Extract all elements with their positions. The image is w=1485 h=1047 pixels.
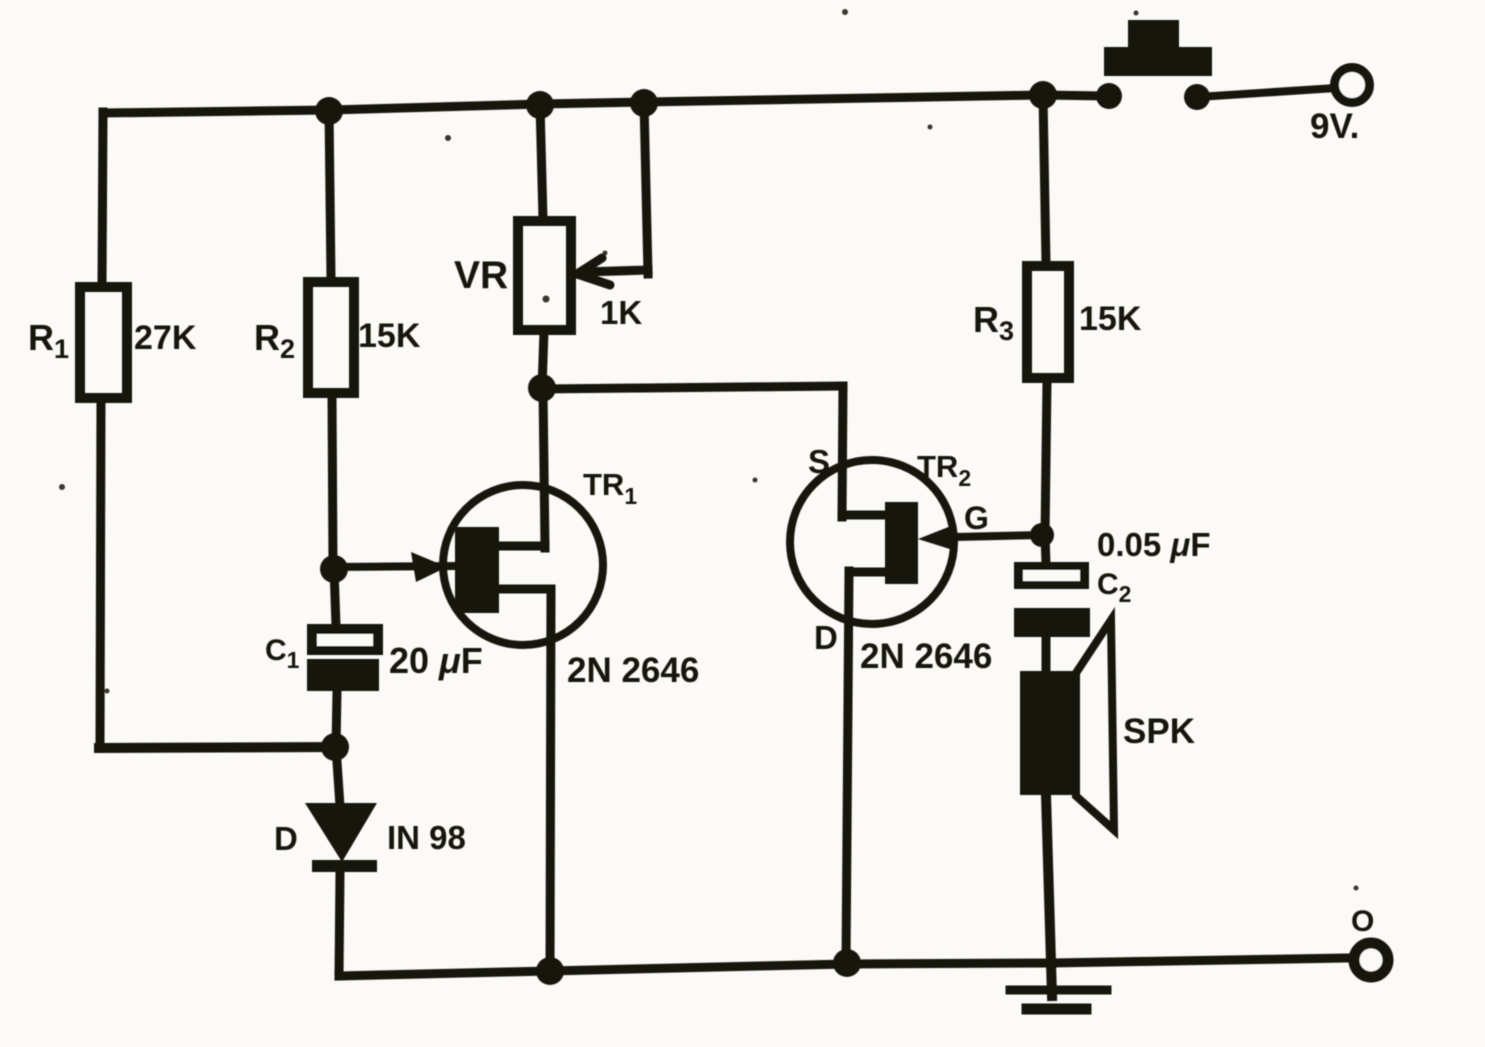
svg-text:G: G <box>964 500 989 536</box>
potentiometer VR <box>518 221 571 330</box>
svg-text:2N 2646: 2N 2646 <box>860 637 992 676</box>
ground symbol <box>1010 990 1107 1009</box>
wire diode anode lead <box>336 747 340 806</box>
push button switch body <box>1104 20 1212 76</box>
node junction R2 top <box>315 97 343 125</box>
wire net VR node to TR2 source horizontal <box>542 386 843 389</box>
node junction TR2 gate on R3 net <box>1030 523 1054 547</box>
node junction VR top <box>526 91 554 119</box>
wire from switch right contact to 9V terminal <box>1198 88 1336 97</box>
wire R2 bottom lead to emitter node <box>332 393 333 569</box>
node junction VR bottom / TR1 base1 / TR2 source net <box>528 374 556 402</box>
wire top rail from R1 corner to switch contact <box>103 95 1110 113</box>
wire R3 bottom lead to gate node <box>1045 381 1047 537</box>
svg-text:2N 2646: 2N 2646 <box>567 651 699 690</box>
speaker SPK horn <box>1076 620 1114 830</box>
resistor R2 <box>308 282 354 393</box>
capacitor C2 top plate <box>1014 562 1089 589</box>
wire TR2 source horizontal into bar <box>842 511 888 520</box>
wire C1 top lead <box>334 568 336 626</box>
wire R1 bottom lead down <box>100 399 101 748</box>
speaker SPK body <box>1020 671 1078 795</box>
svg-text:1K: 1K <box>600 294 642 331</box>
node junction C1 / R1 return / diode <box>321 733 349 761</box>
wire TR2 source lead down <box>842 386 843 517</box>
svg-text:0.05 μF: 0.05 μF <box>1097 526 1210 563</box>
wire TR1 emitter lead <box>333 566 455 567</box>
svg-text:20 μF: 20 μF <box>389 640 483 681</box>
switch right contact <box>1184 84 1210 110</box>
wire TR2 drain horizontal <box>849 568 888 577</box>
wire R1 return to C1/D node <box>99 747 336 748</box>
svg-text:D: D <box>814 619 838 656</box>
svg-text:VR: VR <box>454 254 508 297</box>
svg-text:SPK: SPK <box>1123 712 1195 751</box>
node junction TR1 base2 on bottom rail <box>536 957 564 985</box>
svg-text:IN 98: IN 98 <box>387 819 466 856</box>
capacitor C1 top plate <box>307 624 383 655</box>
wire C1 bottom lead <box>336 691 337 747</box>
capacitor C2 bottom plate <box>1014 608 1090 637</box>
switch left contact <box>1096 83 1122 109</box>
diode D IN98 <box>305 803 377 862</box>
arrowhead VR wiper <box>577 258 610 285</box>
wire speaker bottom lead to ground <box>1046 795 1052 996</box>
wire R1 top lead <box>102 112 103 286</box>
wire VR wiper branch horizontal <box>584 270 648 272</box>
wire VR top lead <box>540 104 543 219</box>
node junction TR1 emitter / C1 top <box>320 555 348 583</box>
svg-text:27K: 27K <box>134 319 197 357</box>
wire TR2 gate lead <box>955 535 1043 537</box>
resistor R3 <box>1027 266 1069 378</box>
wire C2 top lead <box>1045 535 1046 564</box>
node junction TR2 drain on bottom rail <box>833 949 861 977</box>
wire VR wiper branch vertical <box>644 102 648 274</box>
svg-text:15K: 15K <box>1079 300 1142 338</box>
node junction R3 top <box>1029 81 1057 109</box>
transistor TR2 circle <box>790 460 954 624</box>
wire C2 bottom lead <box>1042 637 1051 673</box>
node junction VR wiper branch top <box>630 89 658 117</box>
terminal 9V positive <box>1335 68 1370 103</box>
wire diode cathode lead down <box>339 872 340 976</box>
wire TR2 drain lead down to rail <box>846 571 849 964</box>
wire VR bottom lead <box>542 331 544 389</box>
arrowhead TR1 emitter <box>411 552 447 582</box>
wire TR1 base1 horizontal into bar <box>497 542 545 551</box>
transistor TR2 base bar <box>885 502 918 584</box>
transistor TR1 circle <box>443 485 603 645</box>
wire TR1 base2 lead down to rail <box>550 589 551 973</box>
svg-text:D: D <box>274 820 298 857</box>
svg-text:S: S <box>808 443 830 480</box>
wire R2 top lead <box>329 110 331 279</box>
wire TR1 base1 lead from VR node <box>543 389 545 548</box>
svg-text:O: O <box>1351 905 1374 938</box>
transistor TR1 base bar <box>455 527 499 613</box>
resistor R1 <box>80 287 127 398</box>
arrowhead TR2 gate <box>918 524 956 551</box>
wire bottom rail <box>339 958 1349 976</box>
diode D cathode bar <box>312 860 377 872</box>
capacitor C1 bottom plate <box>307 659 379 691</box>
svg-text:9V.: 9V. <box>1310 107 1359 146</box>
wire TR1 base2 horizontal <box>497 585 551 594</box>
svg-text:15K: 15K <box>358 317 421 355</box>
wire R3 top lead <box>1043 95 1046 263</box>
terminal 0 output <box>1354 943 1388 977</box>
